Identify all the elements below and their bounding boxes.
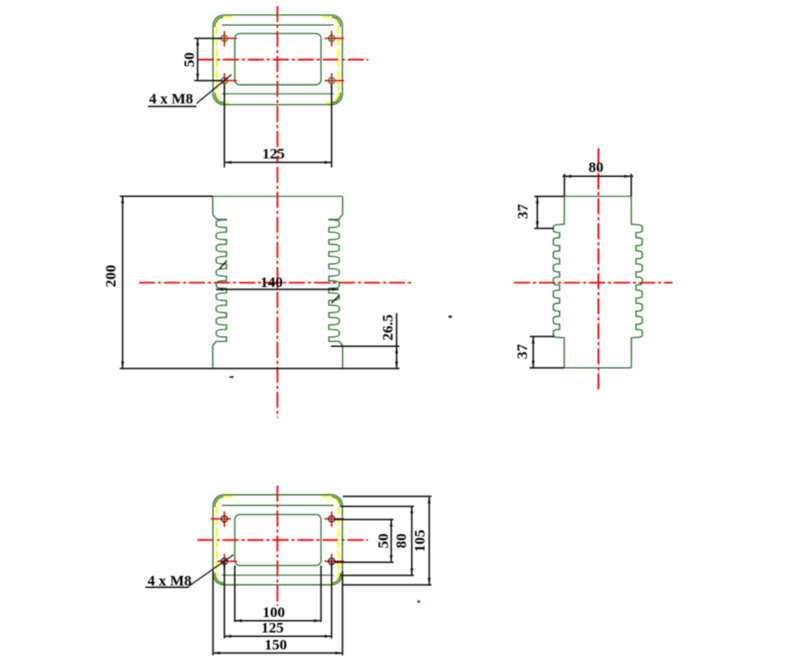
bottom view top step edge <box>222 504 334 506</box>
stray dot mid drawing <box>449 316 452 318</box>
dimension 50 (bottom view) <box>334 519 394 521</box>
dimension 100 (bottom view) <box>234 566 236 623</box>
dimension 105 (bottom view) <box>343 495 432 497</box>
svg-text:125: 125 <box>261 621 284 637</box>
dimension 37 bottom (side view) <box>530 336 555 338</box>
top view yellow chamfer outline right <box>323 17 339 103</box>
front view red horizontal centerline <box>139 282 412 284</box>
side view top edge <box>564 195 631 197</box>
bottom view inner opening <box>235 515 321 566</box>
svg-text:80: 80 <box>394 533 410 548</box>
top view inner corner fillet arcs <box>215 17 224 27</box>
dimension 140 (front view) <box>216 288 339 290</box>
side view right finned profile <box>631 196 642 368</box>
front view right finned profile <box>329 196 343 368</box>
bottom view red vertical centerline <box>276 486 278 607</box>
svg-text:4 x M8: 4 x M8 <box>149 92 193 108</box>
svg-text:37: 37 <box>515 344 531 360</box>
leader line to hole (bottom view) <box>189 555 234 586</box>
svg-text:50: 50 <box>182 52 198 67</box>
front view red vertical centerline <box>276 167 278 418</box>
svg-text:80: 80 <box>589 160 604 176</box>
front view bottom edge <box>120 368 400 370</box>
front view top edge <box>213 195 343 197</box>
bottom view yellow chamfer outline left <box>217 496 233 585</box>
bottom view bolt hole bottom-right <box>331 554 333 570</box>
svg-text:100: 100 <box>263 605 286 621</box>
bottom view yellow chamfer outline right <box>323 496 339 585</box>
bottom view red horizontal centerline <box>198 539 369 541</box>
svg-text:50: 50 <box>376 533 392 548</box>
svg-text:140: 140 <box>260 275 283 291</box>
dimension 37 top (side view) <box>534 195 564 197</box>
dimension 26.5 (front view) <box>331 345 399 347</box>
dimension 125 (top view) <box>223 85 225 168</box>
bottom view bolt hole bottom-left <box>223 554 225 570</box>
top view bolt hole top-right <box>331 31 333 47</box>
top view bottom step edge <box>222 93 334 95</box>
dimension 125 (bottom view) <box>223 561 225 638</box>
dimension 150 (bottom view) <box>212 571 214 655</box>
top view red horizontal centerline <box>198 59 368 61</box>
top view top step edge <box>222 24 334 26</box>
bottom view outer body outline <box>213 495 342 585</box>
leader line to hole (top view) <box>197 75 232 104</box>
section tick marks near fins <box>220 261 228 269</box>
dimension 200 (front view) <box>120 195 213 197</box>
svg-text:105: 105 <box>413 530 429 553</box>
svg-text:26.5: 26.5 <box>380 314 396 340</box>
top view outer body outline <box>213 15 342 105</box>
dimension 50 (top view) <box>194 37 221 39</box>
bottom view inner corner fillet arcs <box>215 497 224 507</box>
bottom view bottom step edge <box>222 574 334 576</box>
bottom view bolt hole top-left <box>223 511 225 527</box>
top view red vertical centerline <box>276 6 278 163</box>
svg-text:125: 125 <box>262 147 285 163</box>
top view bolt hole bottom-left <box>223 73 225 89</box>
svg-text:150: 150 <box>265 638 288 654</box>
side view left finned profile <box>553 196 564 368</box>
side view red vertical centerline <box>597 148 599 391</box>
dimension 80 (bottom view) <box>341 505 415 507</box>
front view left finned profile <box>213 196 227 368</box>
top view yellow chamfer outline left <box>217 17 233 103</box>
stray mark (front view bottom) <box>230 376 234 378</box>
svg-text:200: 200 <box>103 265 119 288</box>
top view bolt hole bottom-right <box>331 73 333 89</box>
stray green dot (bottom right) <box>417 600 420 603</box>
side view bottom edge green part <box>564 367 631 369</box>
bottom view bolt hole top-right <box>331 511 333 527</box>
side view red horizontal centerline <box>514 282 673 284</box>
top view bolt hole top-left <box>223 31 225 47</box>
dimension 80 (side view) <box>563 174 565 197</box>
top view inner opening <box>235 34 321 85</box>
svg-text:37: 37 <box>515 204 531 220</box>
